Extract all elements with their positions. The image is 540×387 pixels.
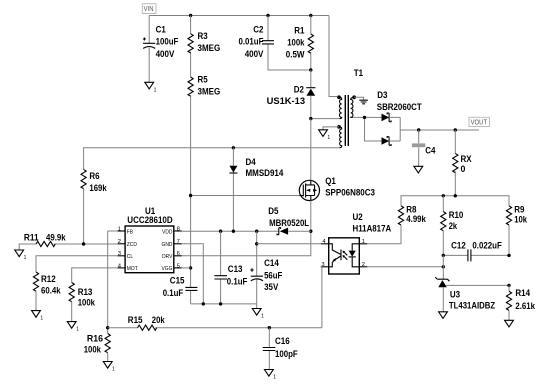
- wire: opto pin 2 to U3 column: [367, 266, 443, 268]
- svg-text:D4: D4: [246, 157, 256, 167]
- svg-text:0: 0: [461, 164, 466, 174]
- diode D2 US1K-13: [267, 70, 316, 119]
- pin 4 MOT: [118, 267, 126, 269]
- svg-text:U3: U3: [450, 289, 460, 299]
- capacitor C2: [239, 16, 311, 71]
- svg-text:VOUT: VOUT: [471, 119, 488, 126]
- shunt regulator U3 TL431AIDBZ: [435, 255, 510, 311]
- U2 light arrows: [344, 252, 348, 260]
- svg-text:C13: C13: [228, 264, 243, 274]
- resistor R16: [84, 334, 111, 362]
- svg-text:R12: R12: [41, 274, 56, 284]
- svg-text:GND: GND: [162, 242, 173, 248]
- pin 7 GND: [174, 243, 182, 245]
- capacitor C16: [263, 326, 298, 369]
- svg-text:R11: R11: [24, 233, 39, 243]
- wire: aux bottom to R6: [84, 148, 340, 170]
- pin 3 CL: [118, 255, 126, 257]
- svg-text:R1: R1: [294, 25, 304, 35]
- svg-text:R16: R16: [87, 334, 103, 344]
- MOSFET Q1 SPP06N80C3: [191, 119, 375, 201]
- svg-text:MOT: MOT: [127, 266, 139, 272]
- svg-text:100k: 100k: [78, 298, 95, 308]
- junction on VIN rail at C2: [266, 14, 269, 17]
- svg-text:D2: D2: [294, 84, 304, 94]
- T1 secondary winding (dot top): [352, 95, 356, 99]
- transformer T1: [84, 68, 368, 169]
- resistor RX: [453, 128, 472, 196]
- pin 1: [359, 243, 367, 245]
- resistor R14: [506, 285, 535, 320]
- junction on VIN rail at R1: [309, 14, 312, 17]
- capacitor C1: [143, 16, 179, 83]
- svg-text:MBR0520L: MBR0520L: [269, 218, 310, 228]
- svg-text:1: 1: [362, 239, 365, 245]
- svg-text:T1: T1: [354, 68, 363, 78]
- optocoupler U2 H11A817A: [321, 212, 392, 274]
- svg-text:8: 8: [177, 226, 180, 232]
- resistor R11: [19, 233, 117, 250]
- resistor R12: [33, 256, 117, 311]
- IC U1 UCC28610D: [118, 206, 182, 273]
- svg-text:1: 1: [154, 87, 157, 93]
- wire: VGG pin to column: [182, 267, 191, 269]
- svg-text:60.4k: 60.4k: [41, 286, 61, 296]
- svg-text:H11A817A: H11A817A: [353, 224, 392, 234]
- pin 3: [321, 266, 329, 268]
- svg-text:0.022uF: 0.022uF: [472, 241, 502, 251]
- svg-text:1: 1: [261, 314, 264, 320]
- wire: primary bottom to drain column: [311, 118, 340, 120]
- ground below U3: [439, 312, 448, 319]
- svg-text:3: 3: [118, 251, 121, 257]
- svg-text:U2: U2: [353, 212, 363, 222]
- junction R1/C2 bottom: [309, 68, 312, 71]
- node VOUT port label: [469, 117, 490, 126]
- wire: VDD rail: [182, 230, 311, 232]
- svg-text:1: 1: [40, 316, 43, 322]
- capacitor C15: [163, 276, 198, 299]
- svg-text:400V: 400V: [245, 49, 264, 59]
- svg-text:DRV: DRV: [162, 254, 173, 260]
- ground (net 1) at R11: [15, 250, 24, 257]
- wire: opto pin 1 to R8: [367, 225, 401, 244]
- wire: VDD node to opto pin 4: [257, 243, 321, 245]
- T1 primary winding (dot top): [337, 95, 341, 99]
- svg-text:1: 1: [76, 327, 79, 333]
- svg-text:10k: 10k: [514, 214, 527, 224]
- svg-text:1: 1: [273, 375, 276, 381]
- svg-text:5: 5: [177, 263, 180, 269]
- svg-text:2: 2: [118, 239, 121, 245]
- svg-text:D3: D3: [377, 90, 387, 100]
- pin 4: [321, 243, 329, 245]
- svg-text:1: 1: [118, 226, 121, 232]
- svg-text:3MEG: 3MEG: [198, 87, 221, 97]
- svg-text:VDD: VDD: [162, 229, 172, 235]
- diode D4 MMSD914: [229, 146, 283, 231]
- svg-text:35V: 35V: [264, 282, 278, 292]
- svg-text:D5: D5: [268, 206, 278, 216]
- wire: GND pin to bottom rail: [182, 244, 204, 304]
- svg-text:C16: C16: [275, 336, 290, 346]
- svg-text:2.61k: 2.61k: [515, 301, 535, 311]
- svg-text:ZCD: ZCD: [127, 242, 137, 248]
- svg-text:100k: 100k: [287, 38, 304, 48]
- svg-text:RX: RX: [461, 154, 472, 164]
- svg-text:C15: C15: [170, 276, 185, 286]
- pin 6 DRV: [174, 255, 182, 257]
- svg-text:7: 7: [177, 239, 180, 245]
- U2 phototransistor: [340, 250, 342, 261]
- node VIN port label: [142, 4, 156, 14]
- svg-text:MMSD914: MMSD914: [246, 168, 284, 178]
- svg-text:100k: 100k: [84, 345, 101, 355]
- svg-text:400V: 400V: [156, 49, 175, 59]
- svg-text:1: 1: [112, 367, 115, 373]
- svg-text:0.01uF: 0.01uF: [239, 37, 264, 47]
- svg-text:C2: C2: [253, 24, 263, 34]
- svg-text:6: 6: [177, 251, 180, 257]
- svg-text:SPP06N80C3: SPP06N80C3: [325, 188, 375, 198]
- svg-text:169k: 169k: [89, 183, 106, 193]
- svg-text:R13: R13: [78, 287, 93, 297]
- svg-text:VIN: VIN: [144, 6, 154, 13]
- capacitor C12: [443, 241, 509, 262]
- svg-text:R6: R6: [89, 171, 99, 181]
- svg-text:0.1uF: 0.1uF: [163, 288, 184, 298]
- svg-text:2: 2: [362, 262, 365, 268]
- svg-text:100uF: 100uF: [156, 37, 179, 47]
- svg-text:TL431AIDBZ: TL431AIDBZ: [449, 301, 496, 311]
- svg-text:49.9k: 49.9k: [46, 233, 66, 243]
- svg-text:100pF: 100pF: [275, 349, 298, 359]
- svg-text:20k: 20k: [152, 315, 165, 325]
- wire: opto pin 3 down to R15: [321, 267, 322, 328]
- svg-text:0.5W: 0.5W: [286, 50, 305, 60]
- resistor R3: [188, 16, 220, 78]
- svg-text:2k: 2k: [449, 221, 457, 231]
- capacitor C14: [250, 231, 283, 308]
- diode D5 MBR0520L: [268, 206, 309, 235]
- resistor R5: [188, 75, 220, 196]
- svg-text:R15: R15: [128, 315, 143, 325]
- resistor R9: [506, 204, 527, 255]
- wire: bottom ground rail: [191, 303, 257, 305]
- capacitor C4: [412, 128, 436, 166]
- pin 2 ZCD: [118, 243, 126, 245]
- wire: FB column: [108, 231, 118, 334]
- svg-text:0.1uF: 0.1uF: [227, 277, 248, 287]
- svg-text:R9: R9: [514, 204, 524, 214]
- svg-text:US1K-13: US1K-13: [267, 96, 306, 106]
- ground (net 1) below C1: [145, 82, 157, 93]
- svg-text:R10: R10: [449, 210, 464, 220]
- svg-text:56uF: 56uF: [264, 271, 283, 281]
- svg-text:SBR2060CT: SBR2060CT: [377, 102, 422, 112]
- ground below C4: [414, 166, 423, 173]
- wire: Q1 source down to DRV: [182, 201, 311, 256]
- svg-text:4.99k: 4.99k: [406, 214, 426, 224]
- wire: feedback top rail: [401, 196, 509, 206]
- svg-text:C14: C14: [264, 258, 279, 268]
- svg-text:C12: C12: [451, 241, 466, 251]
- svg-text:Q1: Q1: [325, 176, 336, 186]
- svg-text:R14: R14: [515, 288, 530, 298]
- ground (net 1) below C14: [252, 309, 261, 316]
- junction on VIN rail at R3: [189, 14, 192, 17]
- svg-text:C4: C4: [425, 146, 435, 156]
- svg-text:FB: FB: [127, 229, 134, 235]
- resistor R13: [69, 268, 118, 322]
- pin 2: [359, 266, 367, 268]
- svg-text:1: 1: [24, 255, 27, 261]
- earth ground at secondary top: [354, 97, 363, 100]
- pin 1 FB: [118, 230, 126, 232]
- svg-text:C1: C1: [156, 24, 166, 34]
- ground (net 1) at aux top: [323, 127, 339, 130]
- resistor R1: [286, 16, 314, 71]
- svg-text:R5: R5: [198, 75, 208, 85]
- wire: VGG column from R5 to C15: [190, 196, 192, 304]
- diode D3 SBR2060CT (dual): [353, 90, 479, 145]
- resistor R10: [441, 196, 464, 256]
- wire: top VIN rail: [149, 16, 337, 97]
- svg-text:1: 1: [327, 135, 330, 141]
- ground below R14: [505, 320, 514, 327]
- svg-text:CL: CL: [127, 254, 133, 260]
- svg-text:UCC28610D: UCC28610D: [127, 215, 172, 225]
- resistor R15: [108, 315, 322, 330]
- T1 core: [345, 95, 348, 146]
- svg-text:3MEG: 3MEG: [198, 43, 221, 53]
- T1 auxiliary winding (dot top): [337, 125, 341, 129]
- junction ZCD/R6: [82, 242, 85, 245]
- U2 LED: [352, 244, 359, 267]
- resistor R8: [398, 204, 426, 225]
- svg-text:R3: R3: [198, 31, 208, 41]
- pin 8 VDD: [174, 230, 182, 232]
- pin 5 VGG: [174, 267, 182, 269]
- capacitor C13: [214, 231, 247, 304]
- svg-text:VGG: VGG: [162, 266, 173, 272]
- resistor R6: [81, 169, 107, 244]
